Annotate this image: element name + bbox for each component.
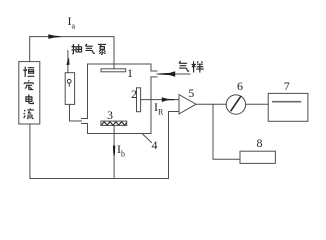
meter 6 needle bbox=[231, 97, 241, 111]
arrow: pump suction (up) bbox=[66, 57, 69, 65]
flowmeter float ball bbox=[67, 79, 71, 86]
wire: constant-current box bottom lead down, along bottom, up to op-amp lower input bbox=[30, 112, 179, 179]
label 2 bbox=[131, 87, 137, 102]
wire: drop from output to box 8 bbox=[213, 104, 240, 159]
glyph 定 bbox=[24, 80, 33, 89]
flowmeter body bbox=[65, 73, 74, 105]
electrode plate 2 (right, collector) bbox=[137, 88, 141, 112]
heater 3 zigzag filament bbox=[101, 122, 126, 125]
box: constant current source (恒定电流) bbox=[19, 62, 40, 124]
label 3 bbox=[107, 108, 113, 123]
box 8 bbox=[240, 151, 275, 163]
meter 6 circle bbox=[226, 95, 245, 114]
pipe: flowmeter to chamber left port bbox=[70, 104, 82, 121]
label IR bbox=[154, 100, 163, 116]
recorder box 7 bbox=[268, 93, 308, 121]
glyph 气 (sample line) bbox=[179, 61, 189, 71]
arrow: I_b direction (down) bbox=[113, 146, 115, 157]
label 4 bbox=[152, 138, 158, 153]
op-amp 5 triangle bbox=[179, 95, 196, 114]
label 6 bbox=[237, 79, 243, 94]
glyph 气 bbox=[85, 44, 95, 53]
wire: I_b lead from heater down to bottom rail bbox=[113, 125, 115, 178]
chamber (ionization cell) outline with ports, item 4 bbox=[82, 64, 152, 119]
gas sample line (气样) into right port bbox=[157, 73, 190, 75]
glyph 样 bbox=[192, 61, 204, 72]
glyph 泵 bbox=[98, 44, 106, 54]
label 5 bbox=[188, 86, 194, 101]
label Ia bbox=[68, 14, 76, 30]
wire: meter to recorder 7 bbox=[246, 103, 269, 105]
label 8 bbox=[257, 136, 263, 151]
leader line to label 4 bbox=[142, 133, 152, 142]
wire: constant-current box top lead up and across to plate 1 bbox=[30, 37, 114, 69]
glyph 抽 bbox=[71, 44, 81, 54]
glyph 恒 bbox=[24, 67, 35, 77]
wire: I_R from plate 2 to op-amp input bbox=[141, 99, 179, 101]
heater element 3 box bbox=[101, 121, 127, 125]
arrow: gas sample flow (points left) bbox=[159, 71, 176, 77]
arrow: I_R direction bbox=[162, 97, 175, 102]
glyph 流 bbox=[24, 108, 34, 118]
wire: op-amp output to meter bbox=[196, 103, 226, 105]
label 7 bbox=[284, 79, 290, 94]
electrode plate 1 (top) bbox=[101, 69, 126, 72]
arrow: I_a current direction on top wire bbox=[48, 34, 60, 39]
label 1 bbox=[127, 66, 133, 81]
recorder 7 inner trace line bbox=[273, 101, 301, 103]
glyph 电 bbox=[26, 94, 33, 103]
label Ib bbox=[117, 142, 125, 158]
pump exhaust line above flowmeter bbox=[67, 51, 69, 73]
